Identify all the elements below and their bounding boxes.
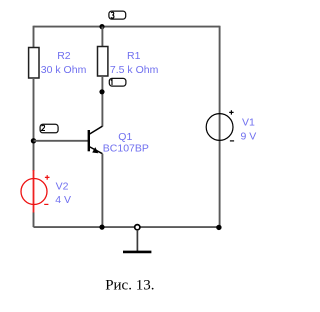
svg-text:R2: R2: [57, 50, 71, 62]
svg-text:Рис. 13.: Рис. 13.: [105, 278, 154, 294]
svg-text:30 k Ohm: 30 k Ohm: [41, 64, 87, 76]
svg-text:7.5 k Ohm: 7.5 k Ohm: [110, 64, 159, 76]
svg-text:4 V: 4 V: [55, 194, 71, 206]
svg-text:BC107BP: BC107BP: [103, 142, 149, 154]
junction dot emitter/bottom: [99, 225, 104, 230]
svg-text:V1: V1: [242, 117, 255, 129]
wire base horizontal: [34, 140, 89, 142]
junction dot node 3: [99, 24, 104, 29]
ground: [123, 225, 151, 252]
wire left vertical mid (R2 bottom to V2): [33, 78, 35, 171]
transistor Q1: [89, 126, 149, 154]
wire emitter to bottom: [101, 154, 103, 227]
svg-text:R1: R1: [127, 50, 141, 62]
node 3 label: [109, 11, 126, 19]
svg-text:9 V: 9 V: [241, 130, 257, 142]
svg-text:Q1: Q1: [118, 131, 132, 143]
wire R1 top: [101, 27, 103, 47]
node 2 label: [40, 124, 58, 133]
svg-text:V2: V2: [56, 180, 69, 192]
wire right vertical: [219, 26, 221, 227]
source V1: [206, 110, 256, 142]
wire top horizontal: [34, 26, 220, 28]
wire left vertical lower (V2 to bottom): [33, 213, 35, 228]
junction dot bottom right: [216, 225, 221, 230]
resistor R2: [29, 48, 87, 79]
resistor R1: [98, 47, 159, 77]
node 1 label: [109, 78, 126, 86]
junction dot node 1: [99, 89, 104, 94]
node 2 junction dot: [31, 138, 36, 143]
wire bottom horizontal: [34, 226, 220, 228]
wire R1 bottom to collector: [101, 76, 103, 127]
wire left vertical upper: [33, 26, 35, 48]
source V2: [21, 170, 71, 213]
